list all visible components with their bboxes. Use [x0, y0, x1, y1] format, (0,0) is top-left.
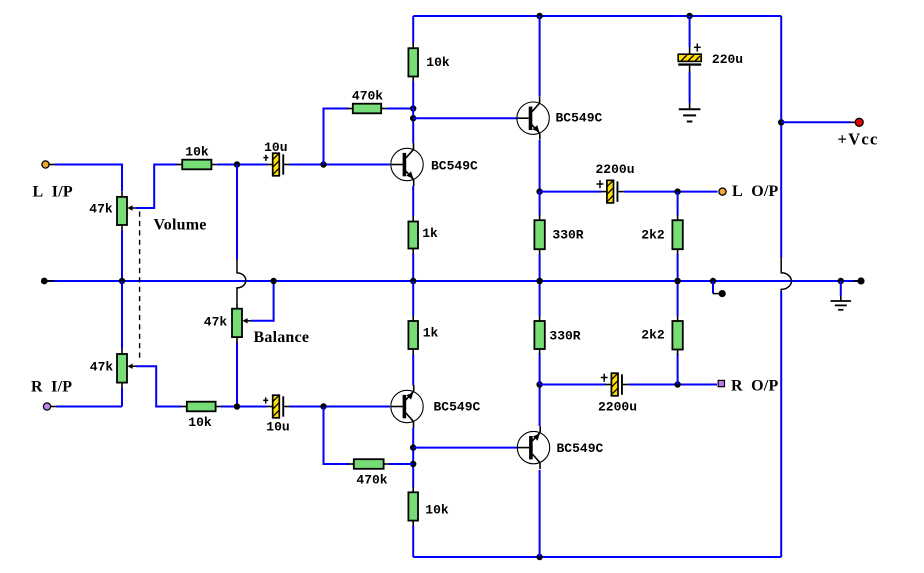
resistor 470k (R feedback) — [348, 459, 389, 469]
label 1k (L) — [422, 226, 438, 241]
node headphone common — [719, 290, 726, 297]
label 330R (L) — [552, 228, 583, 243]
capacitor 10u (R) — [267, 395, 290, 418]
svg-text:+Vcc: +Vcc — [838, 130, 879, 149]
svg-text:10k: 10k — [185, 144, 209, 159]
wire 10k to R junction — [221, 406, 267, 408]
svg-text:Balance: Balance — [254, 329, 310, 346]
svg-text:10u: 10u — [264, 140, 287, 155]
junction 330R / centre rail (L) — [536, 278, 542, 284]
capacitor 10u (L) — [267, 153, 290, 176]
wire right vertical +Vcc rail (upper) — [780, 16, 782, 258]
junction 330R / centre rail (R) — [536, 278, 542, 284]
wire lower wiper to 10k (R) — [136, 366, 182, 406]
svg-text:47k: 47k — [90, 359, 114, 374]
wire 2200u to R O/P — [629, 384, 718, 386]
junction +Vcc rail tap — [778, 119, 784, 125]
potentiometer 47k volume — [117, 191, 137, 230]
capacitor 2200u (R) — [605, 373, 628, 396]
label R O/P — [731, 378, 778, 395]
junction 2k2 / centre rail (L) — [674, 278, 680, 284]
label +Vcc — [838, 130, 879, 149]
wire balance wiper to centre rail — [251, 281, 274, 321]
wire R node to 2200u — [540, 384, 606, 386]
wire Q2 emitter to L output node — [539, 140, 541, 192]
svg-text:BC549C: BC549C — [557, 441, 604, 456]
junction bottom rail / Q4 collector — [536, 554, 542, 560]
transistor Q2 BC549C — [517, 97, 549, 140]
label L I/P — [33, 184, 73, 201]
transistor Q4 BC549C — [517, 426, 549, 469]
wire top supply rail — [413, 15, 781, 17]
label R I/P — [31, 378, 72, 395]
terminal R O/P — [718, 380, 724, 386]
terminal +Vcc — [855, 118, 863, 126]
transistor Q1 BC549C — [391, 143, 423, 186]
svg-text:10k: 10k — [425, 502, 449, 517]
svg-text:BC549C: BC549C — [431, 158, 478, 173]
junction Q1 base / 470k feedback — [320, 161, 326, 167]
label 47k volume — [89, 202, 113, 217]
wire ground tap — [840, 281, 842, 301]
svg-text:1k: 1k — [423, 325, 439, 340]
polarity + of 2200u (L) — [597, 180, 604, 188]
transistor Q3 BC549C — [391, 385, 423, 428]
label 47k (R gang) — [90, 359, 114, 374]
ganged-pot dashed link — [139, 212, 141, 360]
label 10k collector load (L) — [426, 55, 450, 70]
potentiometer 47k (R volume gang) — [117, 349, 137, 389]
node centre rail right end — [853, 277, 865, 284]
wire bottom rail to Q4 collector — [539, 470, 541, 557]
junction left column / centre rail — [410, 278, 416, 284]
wire top rail to 10k collector load (L) — [412, 16, 414, 43]
label 470k (L) — [352, 89, 383, 104]
wire volume pot bottom to centre rail — [121, 231, 123, 282]
svg-text:47k: 47k — [204, 314, 228, 329]
capacitor 2200u (L) — [601, 180, 624, 203]
label 1k (R) — [423, 325, 439, 340]
label 10k collector load (R) — [425, 502, 449, 517]
wire Q4 emitter to R output node — [539, 385, 541, 427]
label 470k (R) — [356, 473, 387, 488]
resistor 10k collector load (R) — [408, 487, 418, 526]
wire 470k to Q3 collector line — [389, 463, 413, 465]
wire lower pot bottom to R input wire — [121, 388, 123, 407]
svg-text:2k2: 2k2 — [641, 228, 665, 243]
ground symbol right — [831, 301, 852, 310]
label 47k balance — [204, 314, 228, 329]
wire centre ground rail — [44, 280, 861, 282]
junction 2k2 / R output wire — [674, 381, 680, 387]
resistor 1k emitter (L) — [408, 216, 418, 254]
wire headphone common stub — [713, 281, 719, 294]
junction Q3 collector / Q4 base feed — [410, 444, 416, 450]
polarity + of 10u (R) — [263, 397, 268, 403]
label L O/P — [732, 183, 779, 200]
svg-text:BC549C: BC549C — [556, 111, 603, 126]
svg-text:10k: 10k — [426, 55, 450, 70]
svg-text:L O/P: L O/P — [732, 183, 779, 200]
wire base junction down to 470k (R) — [324, 407, 350, 465]
wire 2k2 bottom connection (R) — [677, 354, 679, 385]
wire centre rail to 1k (R) — [412, 281, 414, 316]
label BC549C Q1 — [431, 158, 478, 173]
svg-text:1k: 1k — [422, 226, 438, 241]
junction 2k2 / centre rail (R) — [674, 278, 680, 284]
junction Q3 base / 470k (R) — [320, 403, 326, 409]
label Balance — [254, 329, 310, 346]
wire Q3 collector feed to Q4 base — [413, 447, 517, 449]
wire Q1 emitter to 1k — [412, 186, 414, 217]
wire 470k to Q1 collector line — [387, 108, 414, 110]
svg-text:R O/P: R O/P — [731, 378, 778, 395]
svg-text:2k2: 2k2 — [641, 328, 665, 343]
resistor 10k (R input) — [181, 402, 221, 412]
resistor 10k collector load (L) — [408, 43, 418, 82]
wire 10k to bottom rail — [412, 526, 414, 558]
polarity + of 10u (L) — [263, 155, 268, 161]
ground symbol below 220u — [679, 109, 701, 121]
terminal L O/P — [719, 188, 726, 195]
potentiometer 47k balance — [232, 303, 252, 342]
wire hop of +Vcc rail over centre rail — [781, 258, 791, 293]
wire 1k to centre rail — [412, 254, 414, 282]
wire balance pot to R junction — [236, 343, 238, 407]
wire 2k2 to centre rail (R) — [677, 281, 679, 316]
wire base junction up to 470k (L) — [324, 109, 349, 165]
label BC549C Q2 — [556, 111, 603, 126]
wire Q1 collector feed to Q2 base — [413, 117, 517, 119]
junction Q4 emitter / 2200u / 330R (R) — [536, 381, 542, 387]
label 220u — [712, 52, 743, 67]
wire L node to 2200u — [540, 191, 602, 193]
wire 10u to Q3 base — [290, 406, 391, 408]
wire 330R to centre rail (L) — [539, 254, 541, 281]
wire L junction down to balance pot (with hop) — [237, 165, 246, 304]
wire 330R to centre rail (R) — [539, 281, 541, 316]
resistor 330R (L) — [534, 215, 544, 255]
wire 220u to ground — [689, 72, 691, 109]
resistor 470k (L feedback) — [347, 104, 386, 114]
wire 10k to 10u coupling cap — [217, 164, 267, 166]
junction volume pot / centre rail — [119, 278, 125, 284]
junction L signal / balance column — [234, 161, 240, 167]
svg-text:10k: 10k — [188, 415, 212, 430]
svg-text:2200u: 2200u — [598, 400, 637, 415]
svg-text:Volume: Volume — [154, 216, 207, 233]
svg-text:L I/P: L I/P — [33, 184, 73, 201]
resistor 330R (R) — [534, 316, 544, 355]
junction top rail / Q2 collector — [536, 13, 542, 19]
junction 2k2 / L output wire — [674, 188, 680, 194]
junction Q1 collector / Q2 base feed — [410, 115, 416, 121]
wire 2k2 top connection (L) — [677, 192, 679, 216]
label 2200u (R) — [598, 400, 637, 415]
label BC549C Q4 — [557, 441, 604, 456]
terminal L I/P — [42, 161, 55, 168]
wire 1k to Q3 emitter — [412, 355, 414, 386]
svg-text:R I/P: R I/P — [31, 378, 72, 395]
wire centre rail to lower pot top — [121, 281, 123, 349]
wire volume wiper to 10k — [136, 165, 177, 209]
junction centre rail / ground tap — [838, 278, 844, 284]
svg-text:470k: 470k — [356, 473, 387, 488]
svg-text:47k: 47k — [89, 202, 113, 217]
polarity + of 2200u (R) — [601, 374, 608, 382]
svg-text:330R: 330R — [552, 228, 583, 243]
capacitor 220u — [678, 47, 701, 72]
label 10k (R input) — [188, 415, 212, 430]
wire bottom supply rail — [413, 556, 781, 558]
wire R input to lower pot — [56, 406, 122, 408]
resistor 2k2 (L) — [672, 215, 682, 255]
resistor 10k (L input) — [177, 160, 217, 170]
wire right vertical +Vcc rail (lower) — [780, 292, 782, 558]
label 10u (R) — [266, 419, 289, 434]
svg-text:220u: 220u — [712, 52, 743, 67]
label 2k2 (R) — [641, 328, 665, 343]
svg-text:BC549C: BC549C — [434, 400, 481, 415]
svg-text:10u: 10u — [266, 419, 289, 434]
label BC549C Q3 — [434, 400, 481, 415]
resistor 1k emitter (R) — [408, 316, 418, 355]
wire L input to volume pot — [55, 165, 122, 192]
svg-text:2200u: 2200u — [595, 162, 634, 177]
wire R output node to 330R — [539, 354, 541, 385]
junction top rail / 220u — [686, 13, 692, 19]
junction Q2 emitter / 2200u / 330R (L) — [536, 188, 542, 194]
wire top rail to 220u — [689, 16, 691, 47]
junction centre rail / headphone common stub — [710, 278, 716, 284]
junction 470k / Q1 collector — [410, 105, 416, 111]
label 2k2 (L) — [641, 228, 665, 243]
terminal R I/P — [43, 403, 56, 410]
wire 2200u to L O/P — [624, 191, 718, 193]
svg-text:330R: 330R — [549, 329, 580, 344]
junction balance wiper / centre rail — [270, 278, 276, 284]
resistor 2k2 (R) — [672, 316, 682, 356]
wire top rail to Q2 collector — [539, 16, 541, 97]
wire 2k2 to centre rail (L) — [677, 254, 679, 281]
junction R signal / balance column — [234, 403, 240, 409]
label 330R (R) — [549, 329, 580, 344]
wire L output node to 330R — [539, 192, 541, 216]
svg-text:470k: 470k — [352, 89, 383, 104]
label 2200u (L) — [595, 162, 634, 177]
node centre rail left end — [41, 278, 55, 285]
wire +Vcc tap — [781, 121, 855, 123]
wire Q3 collector down — [412, 428, 414, 488]
label 10u (L) — [264, 140, 287, 155]
wire 10k to Q1 collector — [412, 82, 414, 144]
junction Q3 collector / 470k (R) — [410, 461, 416, 467]
wire 10u to Q1 base — [290, 164, 391, 166]
label 10k (L input) — [185, 144, 209, 159]
label Volume — [154, 216, 207, 233]
polarity + of 220u — [694, 44, 701, 52]
